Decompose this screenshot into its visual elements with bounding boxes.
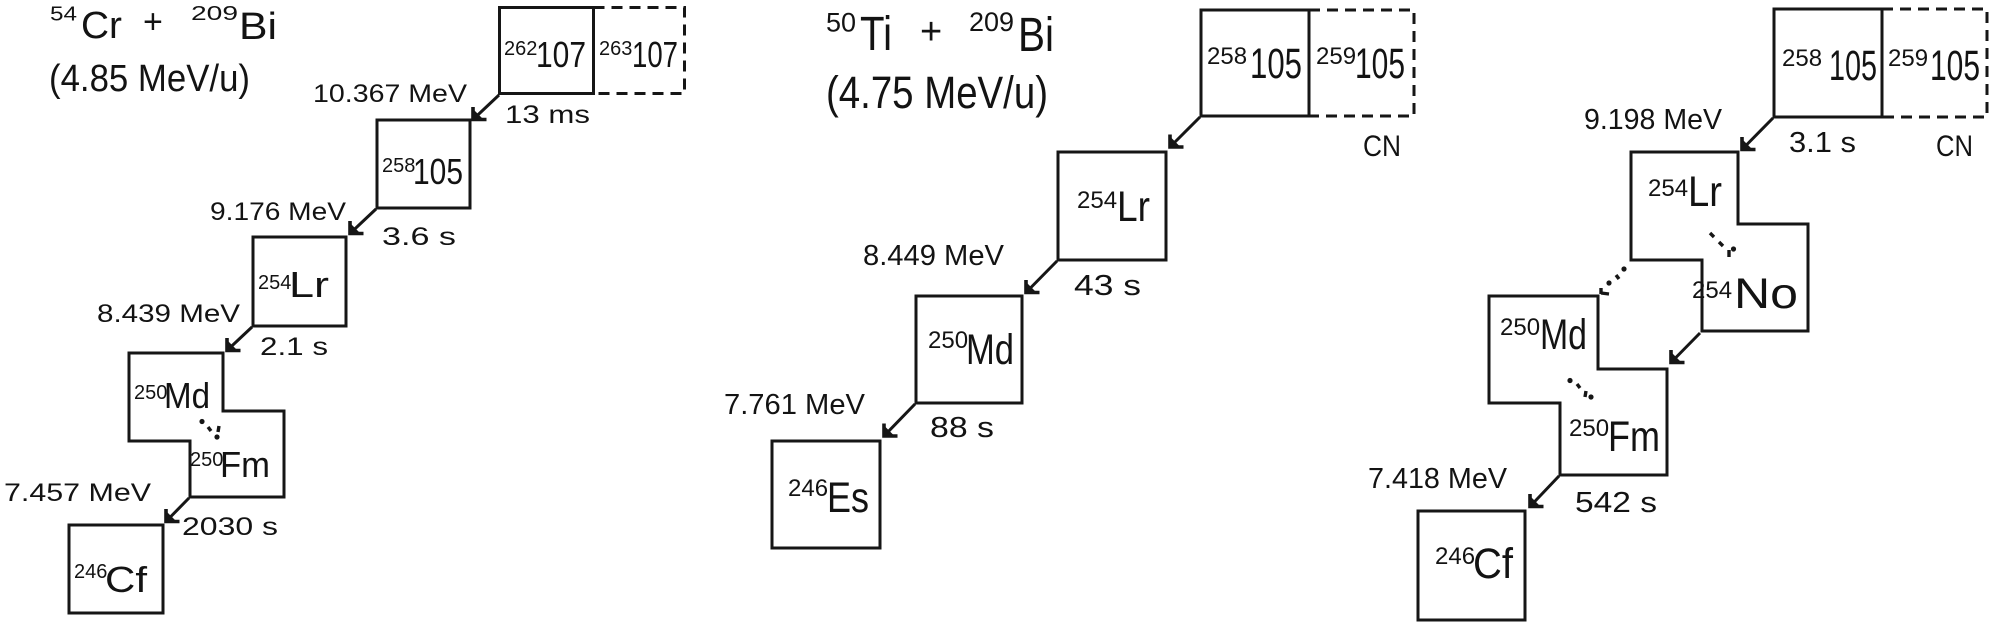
svg-text:105: 105: [1829, 42, 1877, 90]
svg-text:262: 262: [504, 38, 537, 60]
svg-text:+: +: [143, 3, 163, 41]
svg-text:254: 254: [1077, 187, 1117, 214]
svg-text:258: 258: [1782, 45, 1822, 72]
svg-text:107: 107: [632, 34, 678, 75]
alpha arrow Lr to Md (middle): [1025, 261, 1057, 294]
svg-text:8.439 MeV: 8.439 MeV: [97, 300, 240, 328]
svg-text:246: 246: [74, 561, 107, 583]
alpha arrow Lr to Md: [226, 327, 252, 352]
staircase boxes 250-Md / 250-Fm: [129, 353, 284, 497]
box 246-Cf: [69, 525, 163, 613]
svg-text:CN: CN: [1936, 130, 1973, 163]
svg-text:250: 250: [190, 449, 223, 471]
svg-text:Cr: Cr: [81, 5, 122, 47]
svg-text:Cf: Cf: [1473, 540, 1514, 588]
alpha arrow 105 to Lr (right): [1741, 118, 1773, 151]
svg-text:542 s: 542 s: [1575, 487, 1657, 519]
svg-text:246: 246: [788, 475, 828, 502]
staircase boxes 250-Md / 250-Fm (right): [1489, 296, 1667, 475]
svg-text:3.6 s: 3.6 s: [382, 223, 456, 251]
svg-text:105: 105: [1930, 42, 1980, 90]
svg-text:254: 254: [1648, 175, 1688, 202]
svg-text:CN: CN: [1363, 130, 1401, 163]
box 246-Es (middle): [772, 441, 880, 548]
svg-text:7.457 MeV: 7.457 MeV: [4, 479, 151, 507]
svg-text:2030 s: 2030 s: [182, 513, 278, 541]
box 262-107: [500, 8, 594, 94]
svg-text:107: 107: [536, 34, 586, 75]
svg-text:54: 54: [50, 4, 77, 26]
svg-text:209: 209: [191, 3, 238, 25]
svg-text:250: 250: [1500, 314, 1540, 341]
box 254-Lr: [253, 237, 346, 326]
svg-text:13 ms: 13 ms: [505, 101, 590, 129]
svg-text:Fm: Fm: [220, 444, 270, 485]
svg-text:254: 254: [258, 272, 291, 294]
svg-text:(4.75 MeV/u): (4.75 MeV/u): [826, 67, 1048, 118]
svg-text:(4.85 MeV/u): (4.85 MeV/u): [49, 58, 250, 100]
svg-text:Cf: Cf: [105, 559, 148, 600]
svg-text:3.1 s: 3.1 s: [1789, 127, 1856, 159]
EC dotted arrow Lr to No (right): [1710, 233, 1736, 257]
svg-text:43 s: 43 s: [1074, 270, 1141, 302]
svg-text:254: 254: [1692, 277, 1732, 304]
alpha arrow No to Fm (right): [1670, 333, 1700, 364]
svg-text:+: +: [920, 11, 942, 53]
svg-text:10.367 MeV: 10.367 MeV: [313, 80, 467, 108]
svg-text:Bi: Bi: [1018, 9, 1054, 62]
box 258-105: [377, 120, 470, 208]
svg-text:250: 250: [134, 382, 167, 404]
svg-text:50: 50: [826, 8, 856, 38]
svg-text:88 s: 88 s: [930, 412, 994, 444]
svg-text:105: 105: [1250, 40, 1302, 88]
svg-text:258: 258: [1207, 43, 1247, 70]
box 254-Lr (middle): [1058, 152, 1166, 260]
svg-text:105: 105: [1355, 40, 1405, 88]
svg-text:Ti: Ti: [860, 8, 892, 61]
dotted alpha arrow Lr to Md (right): [1601, 266, 1627, 294]
alpha arrow Fm to Cf: [165, 498, 189, 523]
svg-text:259: 259: [1888, 45, 1928, 72]
svg-text:Bi: Bi: [239, 6, 277, 48]
svg-text:2.1 s: 2.1 s: [260, 333, 328, 361]
svg-text:250: 250: [1569, 415, 1609, 442]
alpha arrow 105 to Lr: [349, 209, 376, 235]
alpha arrow Md to Es (middle): [883, 404, 915, 437]
alpha arrow Fm to Cf (right): [1529, 476, 1559, 508]
svg-text:8.449 MeV: 8.449 MeV: [863, 240, 1005, 272]
svg-text:7.761 MeV: 7.761 MeV: [724, 389, 866, 421]
box 250-Md (middle): [916, 296, 1022, 403]
dashed box 263-107: [594, 8, 685, 94]
dashed box 259-105 (right): [1882, 9, 1987, 117]
alpha arrow 105 to Lr (middle): [1169, 117, 1200, 148]
svg-text:259: 259: [1316, 43, 1356, 70]
svg-text:9.198 MeV: 9.198 MeV: [1584, 104, 1723, 136]
EC dotted arrow Md to Fm (right): [1567, 378, 1593, 400]
svg-text:250: 250: [928, 327, 968, 354]
alpha arrow 107 to 105: [472, 95, 499, 121]
box 258-105 (right): [1774, 9, 1882, 117]
svg-text:9.176 MeV: 9.176 MeV: [210, 198, 346, 226]
svg-text:Lr: Lr: [1688, 168, 1722, 216]
svg-text:Md: Md: [1540, 311, 1587, 359]
svg-text:Md: Md: [966, 326, 1014, 374]
svg-text:No: No: [1734, 270, 1798, 318]
EC dotted arrow Md to Fm: [199, 419, 219, 440]
svg-text:Fm: Fm: [1608, 413, 1660, 461]
svg-text:258: 258: [382, 155, 415, 177]
svg-text:263: 263: [599, 38, 632, 60]
svg-text:246: 246: [1435, 543, 1475, 570]
box 246-Cf (right): [1418, 511, 1525, 620]
svg-text:7.418 MeV: 7.418 MeV: [1368, 463, 1508, 495]
staircase boxes 254-Lr / 254-No (right): [1631, 152, 1808, 331]
box 258-105 (middle): [1201, 10, 1309, 116]
svg-text:105: 105: [413, 151, 463, 192]
svg-text:209: 209: [969, 7, 1014, 37]
dashed box 259-105 (middle): [1309, 10, 1414, 116]
svg-text:Lr: Lr: [1117, 183, 1150, 231]
svg-text:Es: Es: [827, 474, 869, 522]
svg-text:Lr: Lr: [289, 264, 329, 305]
svg-text:Md: Md: [164, 375, 210, 416]
